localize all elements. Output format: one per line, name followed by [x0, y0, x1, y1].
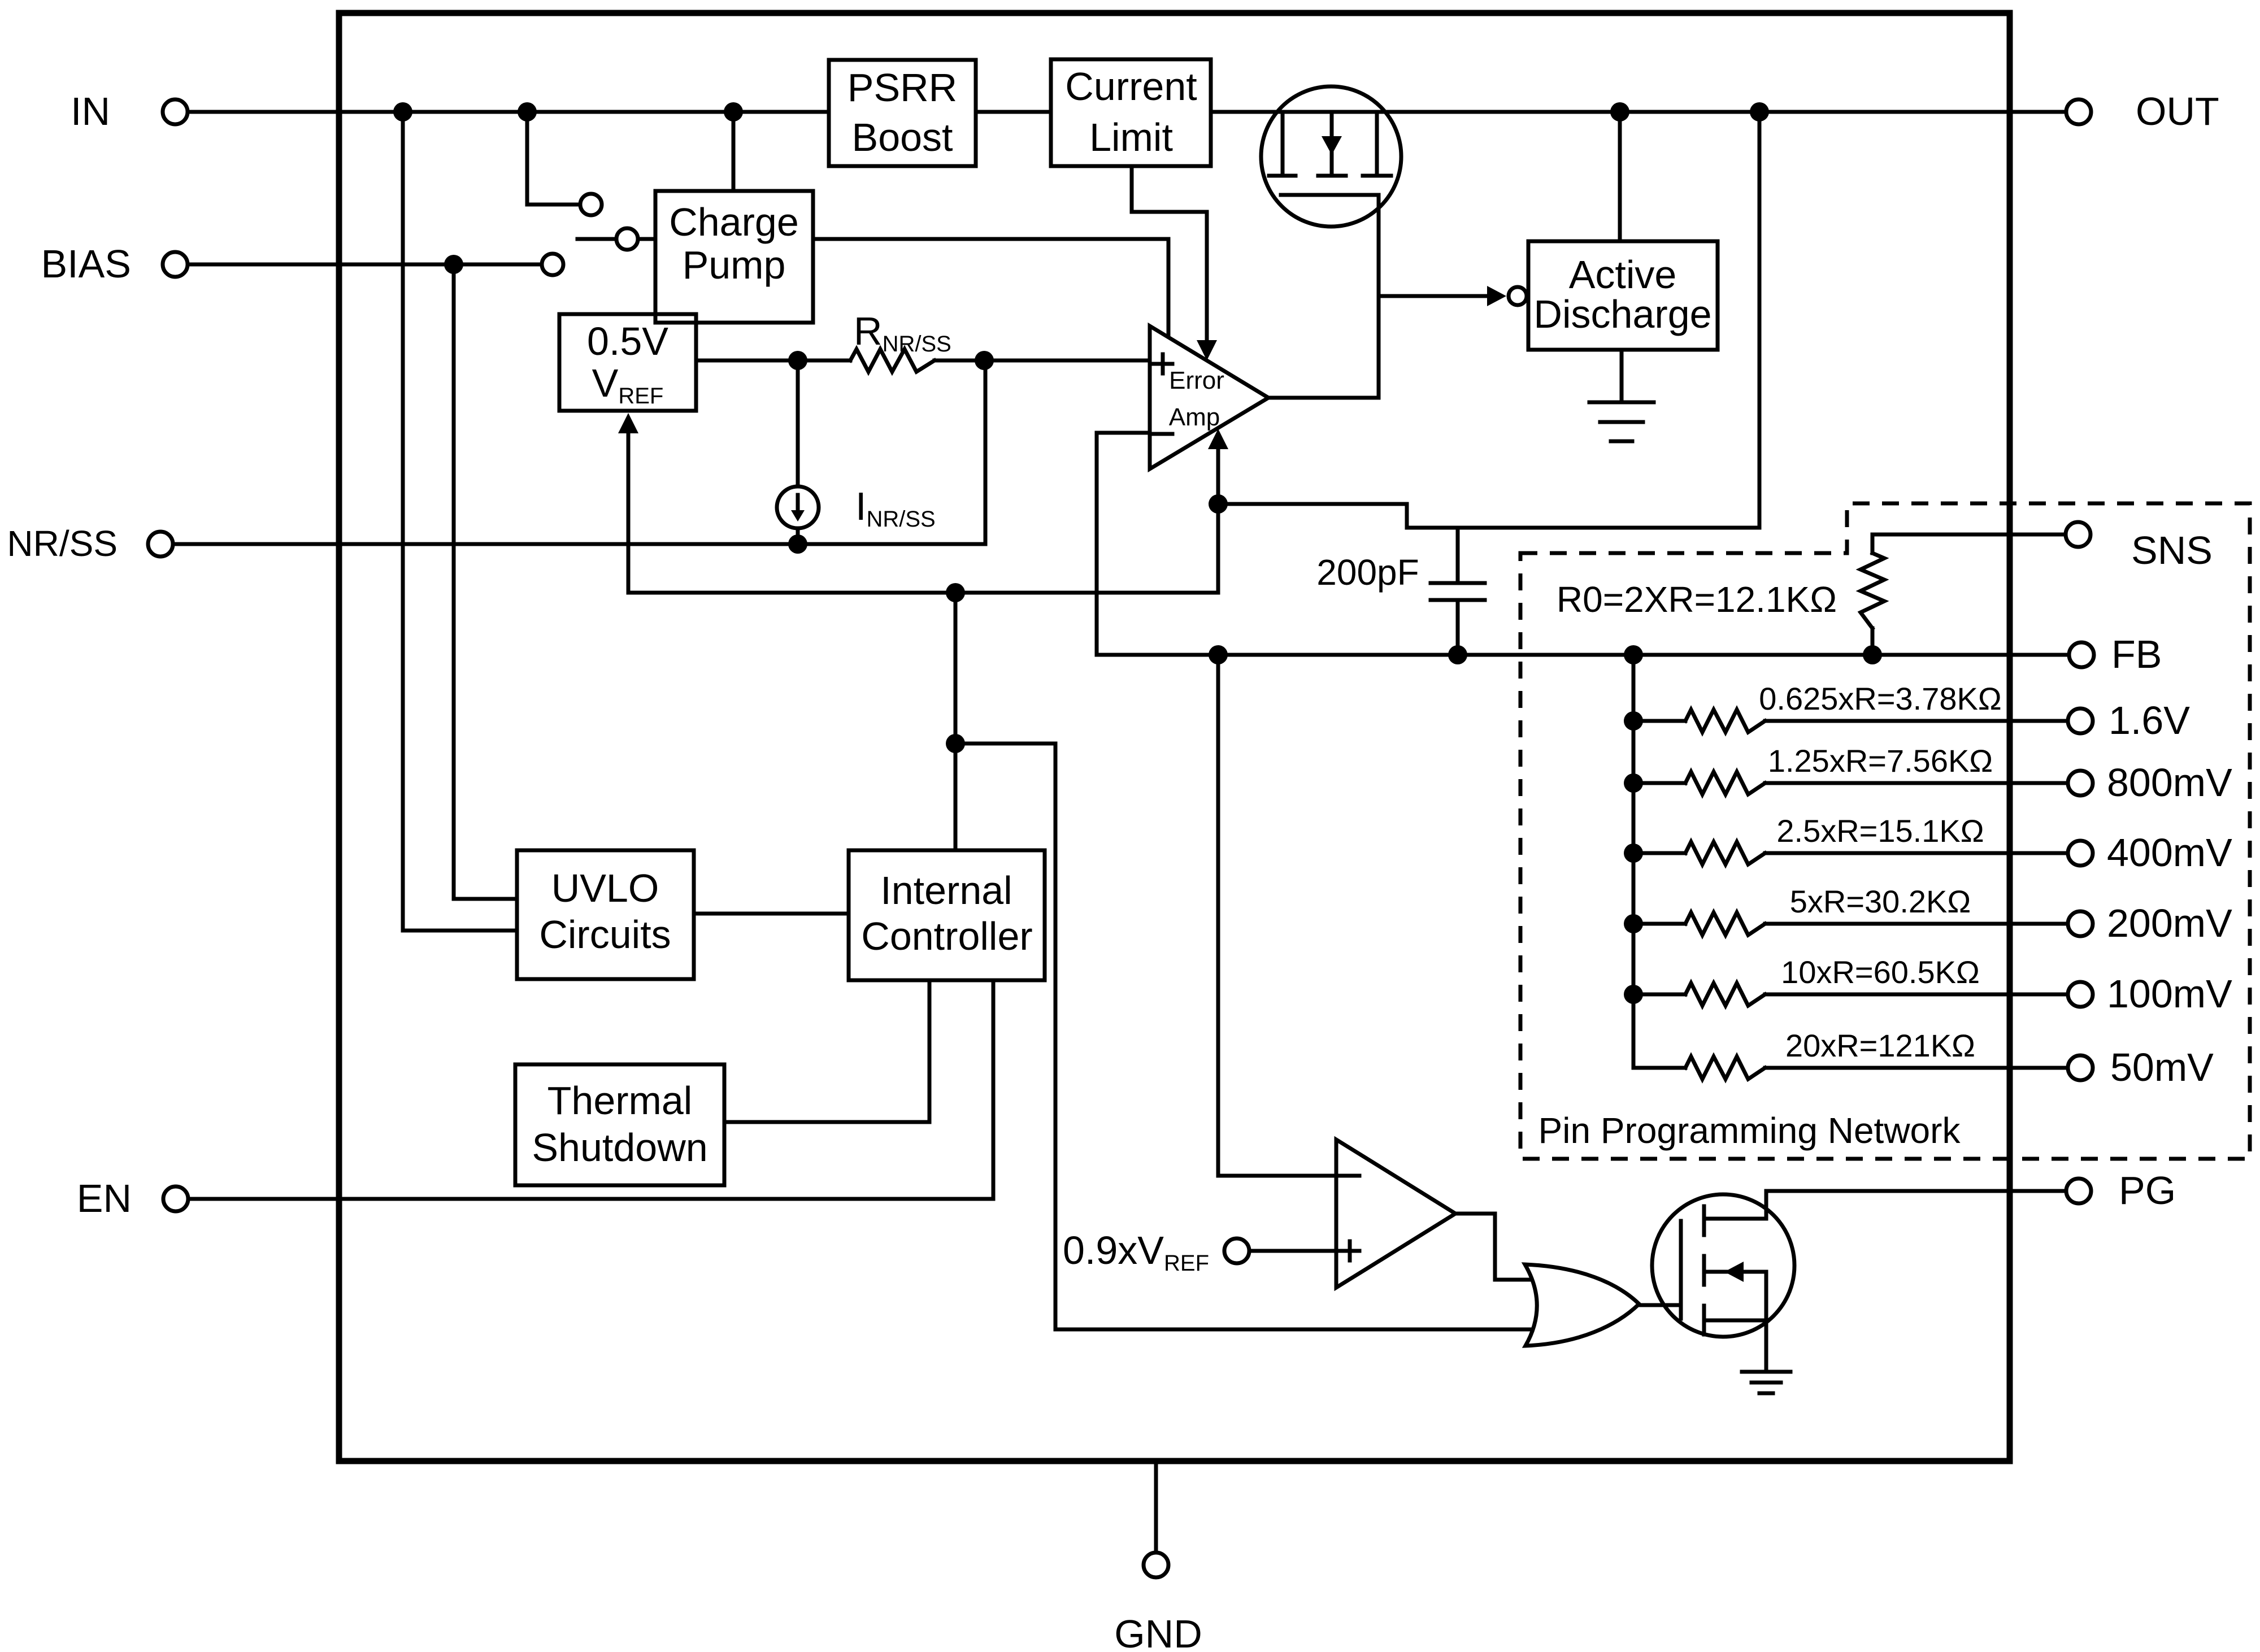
- svg-text:100mV: 100mV: [2107, 972, 2232, 1016]
- svg-text:10xR=60.5KΩ: 10xR=60.5KΩ: [1781, 954, 1980, 990]
- svg-text:SNS: SNS: [2131, 528, 2213, 572]
- svg-text:UVLO: UVLO: [551, 866, 659, 910]
- svg-text:PSRR: PSRR: [847, 66, 957, 110]
- svg-text:1.25xR=7.56KΩ: 1.25xR=7.56KΩ: [1768, 743, 1993, 779]
- svg-text:Amp: Amp: [1169, 403, 1220, 431]
- svg-text:Circuits: Circuits: [539, 912, 671, 957]
- svg-text:Active: Active: [1569, 253, 1677, 297]
- svg-text:PG: PG: [2119, 1168, 2176, 1212]
- svg-text:2.5xR=15.1KΩ: 2.5xR=15.1KΩ: [1776, 813, 1984, 849]
- svg-text:Pump: Pump: [683, 243, 786, 287]
- svg-text:400mV: 400mV: [2107, 831, 2232, 875]
- svg-text:1.6V: 1.6V: [2109, 698, 2190, 742]
- svg-text:FB: FB: [2111, 632, 2162, 676]
- svg-text:Controller: Controller: [861, 914, 1032, 958]
- svg-text:BIAS: BIAS: [41, 242, 131, 286]
- svg-text:0.5V: 0.5V: [587, 319, 668, 363]
- svg-text:Limit: Limit: [1089, 115, 1173, 159]
- svg-text:IN: IN: [71, 89, 110, 133]
- svg-text:Thermal: Thermal: [547, 1079, 693, 1123]
- svg-text:200pF: 200pF: [1316, 552, 1419, 593]
- svg-text:Internal: Internal: [880, 868, 1012, 912]
- svg-text:Charge: Charge: [669, 200, 799, 244]
- svg-text:Error: Error: [1169, 367, 1224, 394]
- svg-text:0.625xR=3.78KΩ: 0.625xR=3.78KΩ: [1759, 681, 2002, 716]
- svg-text:NR/SS: NR/SS: [7, 523, 118, 564]
- svg-text:20xR=121KΩ: 20xR=121KΩ: [1785, 1028, 1975, 1063]
- svg-text:Discharge: Discharge: [1533, 292, 1711, 336]
- svg-text:Pin Programming Network: Pin Programming Network: [1538, 1110, 1961, 1151]
- svg-text:50mV: 50mV: [2110, 1045, 2214, 1089]
- svg-text:200mV: 200mV: [2107, 901, 2232, 945]
- svg-text:GND: GND: [1114, 1612, 1202, 1652]
- svg-text:Shutdown: Shutdown: [532, 1125, 707, 1170]
- svg-text:EN: EN: [77, 1176, 132, 1220]
- svg-text:Current: Current: [1065, 64, 1197, 108]
- svg-text:Boost: Boost: [852, 115, 953, 159]
- svg-text:800mV: 800mV: [2107, 760, 2232, 805]
- svg-text:OUT: OUT: [2136, 89, 2219, 133]
- svg-text:5xR=30.2KΩ: 5xR=30.2KΩ: [1790, 884, 1971, 919]
- svg-text:R0=2XR=12.1KΩ: R0=2XR=12.1KΩ: [1557, 579, 1837, 620]
